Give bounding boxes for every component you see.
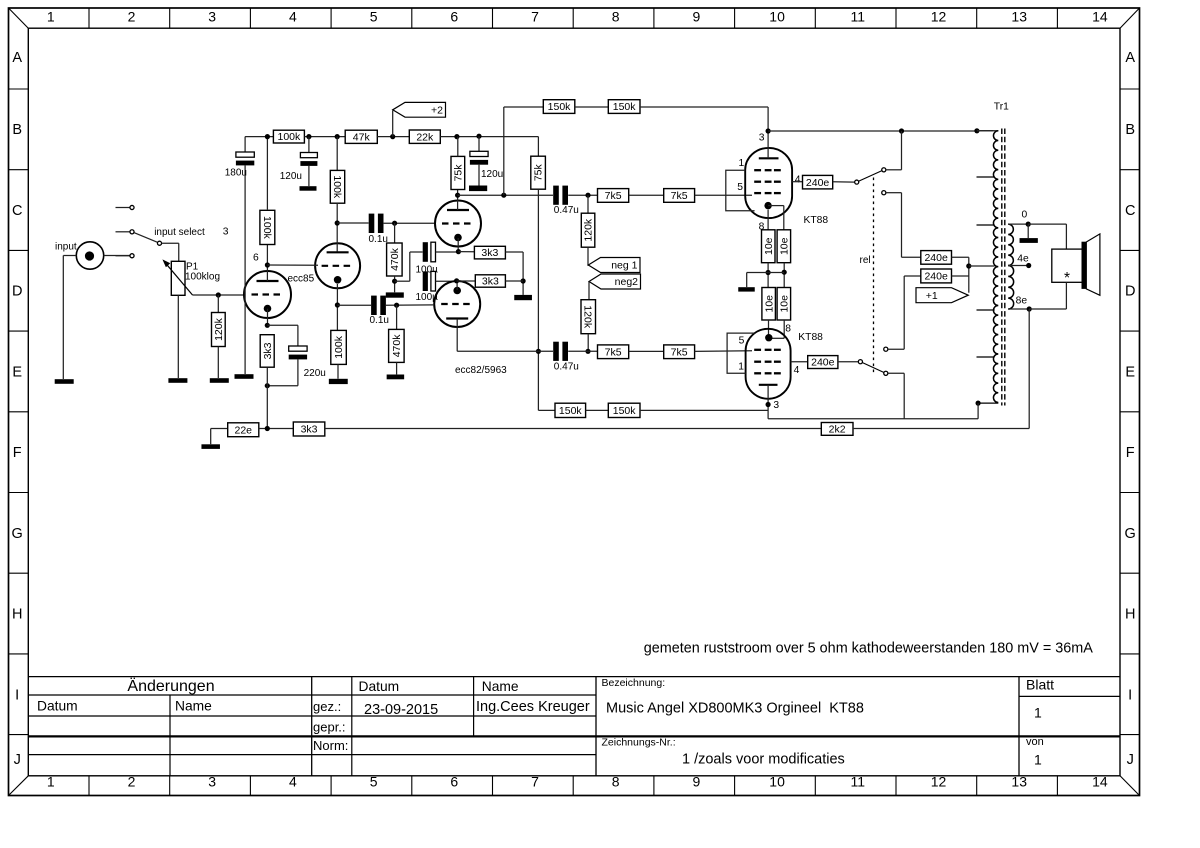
svg-text:1: 1 — [47, 773, 55, 789]
svg-text:5: 5 — [370, 773, 378, 789]
svg-text:G: G — [12, 526, 23, 542]
svg-text:input select: input select — [154, 227, 205, 238]
svg-text:75k: 75k — [533, 163, 545, 181]
svg-text:23-09-2015: 23-09-2015 — [364, 702, 438, 718]
svg-text:4: 4 — [289, 773, 297, 789]
svg-text:3: 3 — [223, 227, 229, 238]
svg-text:240e: 240e — [811, 357, 835, 369]
svg-text:1: 1 — [1034, 705, 1042, 721]
svg-text:J: J — [1127, 752, 1134, 768]
svg-text:7k5: 7k5 — [671, 190, 688, 202]
svg-text:J: J — [14, 752, 21, 768]
svg-text:3k3: 3k3 — [481, 247, 498, 259]
svg-text:150k: 150k — [548, 101, 572, 113]
svg-text:7: 7 — [531, 773, 539, 789]
svg-text:8: 8 — [785, 324, 791, 335]
svg-text:10: 10 — [769, 773, 785, 789]
svg-text:5: 5 — [370, 8, 378, 24]
svg-text:gez.:: gez.: — [313, 699, 341, 714]
svg-text:B: B — [12, 122, 22, 138]
svg-text:8: 8 — [612, 773, 620, 789]
svg-text:7k5: 7k5 — [605, 346, 622, 358]
svg-text:I: I — [15, 687, 19, 703]
svg-text:E: E — [12, 365, 22, 381]
svg-text:Änderungen: Änderungen — [127, 677, 214, 695]
svg-text:0: 0 — [1022, 210, 1028, 221]
svg-text:rel: rel — [860, 255, 871, 266]
svg-text:2k2: 2k2 — [829, 424, 846, 436]
svg-text:KT88: KT88 — [798, 332, 823, 343]
svg-text:0.47u: 0.47u — [554, 205, 579, 216]
svg-text:7k5: 7k5 — [671, 346, 688, 358]
svg-text:8: 8 — [612, 8, 620, 24]
svg-text:4: 4 — [289, 8, 297, 24]
svg-text:input: input — [55, 242, 77, 253]
svg-text:150k: 150k — [613, 405, 637, 417]
svg-text:9: 9 — [693, 8, 701, 24]
svg-text:100k: 100k — [333, 335, 345, 359]
svg-text:240e: 240e — [924, 271, 948, 283]
svg-text:11: 11 — [851, 773, 866, 789]
svg-text:12: 12 — [931, 773, 947, 789]
svg-text:120k: 120k — [583, 218, 595, 242]
svg-text:G: G — [1125, 526, 1136, 542]
svg-text:100k: 100k — [278, 131, 302, 143]
svg-text:neg2: neg2 — [615, 276, 639, 288]
svg-text:180u: 180u — [225, 168, 247, 179]
svg-text:120k: 120k — [213, 317, 225, 341]
svg-text:Name: Name — [482, 679, 519, 694]
svg-text:4e: 4e — [1017, 253, 1029, 264]
svg-text:A: A — [12, 50, 22, 66]
svg-text:14: 14 — [1092, 773, 1108, 789]
svg-text:10e: 10e — [778, 295, 790, 313]
svg-text:10e: 10e — [778, 237, 790, 255]
svg-text:Blatt: Blatt — [1026, 677, 1054, 693]
svg-text:1: 1 — [47, 8, 55, 24]
svg-text:13: 13 — [1011, 8, 1027, 24]
svg-text:H: H — [12, 607, 22, 623]
svg-text:Ing.Cees Kreuger: Ing.Cees Kreuger — [476, 699, 590, 715]
svg-text:0.47u: 0.47u — [554, 361, 579, 372]
svg-text:22e: 22e — [234, 424, 252, 436]
svg-text:+2: +2 — [431, 104, 443, 116]
svg-text:H: H — [1125, 607, 1135, 623]
svg-text:100klog: 100klog — [185, 272, 220, 283]
svg-text:gepr.:: gepr.: — [313, 720, 346, 735]
svg-text:9: 9 — [693, 773, 701, 789]
svg-text:D: D — [12, 284, 22, 300]
svg-text:KT88: KT88 — [804, 215, 829, 226]
svg-text:5: 5 — [737, 182, 743, 193]
svg-text:6: 6 — [450, 773, 458, 789]
svg-text:F: F — [1126, 445, 1135, 461]
svg-text:150k: 150k — [559, 405, 583, 417]
svg-text:3k3: 3k3 — [262, 342, 274, 359]
svg-text:3: 3 — [208, 773, 216, 789]
svg-text:1: 1 — [1034, 752, 1042, 768]
svg-text:8e: 8e — [1016, 296, 1028, 307]
svg-text:1: 1 — [738, 361, 744, 372]
svg-text:7k5: 7k5 — [605, 190, 622, 202]
svg-text:I: I — [1128, 687, 1132, 703]
svg-text:C: C — [12, 203, 22, 219]
svg-text:10e: 10e — [763, 237, 775, 255]
svg-text:240e: 240e — [924, 252, 948, 264]
svg-text:neg 1: neg 1 — [611, 260, 637, 272]
svg-text:120u: 120u — [280, 171, 302, 182]
svg-text:Norm:: Norm: — [313, 738, 348, 753]
svg-text:11: 11 — [851, 8, 866, 24]
svg-text:E: E — [1125, 365, 1135, 381]
svg-text:240e: 240e — [806, 177, 830, 189]
svg-text:3: 3 — [773, 400, 779, 411]
svg-text:14: 14 — [1092, 8, 1108, 24]
svg-text:B: B — [1125, 122, 1135, 138]
svg-text:4: 4 — [794, 365, 800, 376]
svg-text:120u: 120u — [481, 169, 503, 180]
svg-text:470k: 470k — [389, 247, 401, 271]
svg-text:120k: 120k — [582, 305, 594, 329]
svg-text:Name: Name — [175, 698, 212, 713]
svg-text:von: von — [1026, 736, 1044, 748]
svg-text:12: 12 — [931, 8, 947, 24]
svg-text:A: A — [1125, 50, 1135, 66]
svg-text:gemeten ruststroom over 5 ohm: gemeten ruststroom over 5 ohm kathodewee… — [644, 641, 1094, 657]
svg-text:0.1u: 0.1u — [370, 315, 389, 326]
svg-text:3k3: 3k3 — [301, 424, 318, 436]
svg-text:Datum: Datum — [359, 679, 400, 694]
svg-text:ecc85: ecc85 — [288, 273, 315, 284]
svg-text:+1: +1 — [926, 290, 938, 302]
svg-text:1 /zoals voor modificaties: 1 /zoals voor modificaties — [682, 752, 845, 768]
svg-text:3k3: 3k3 — [482, 276, 499, 288]
svg-text:47k: 47k — [353, 131, 371, 143]
svg-text:3: 3 — [208, 8, 216, 24]
svg-text:0.1u: 0.1u — [369, 234, 388, 245]
svg-text:Music Angel XD800MK3 Orgineel: Music Angel XD800MK3 Orgineel KT88 — [606, 701, 864, 717]
svg-text:6: 6 — [450, 8, 458, 24]
svg-text:1: 1 — [739, 158, 745, 169]
svg-text:C: C — [1125, 203, 1135, 219]
svg-text:5: 5 — [739, 335, 745, 346]
svg-text:10e: 10e — [763, 295, 775, 313]
svg-text:470k: 470k — [391, 334, 403, 358]
svg-text:ecc82/5963: ecc82/5963 — [455, 365, 507, 376]
svg-text:2: 2 — [128, 773, 136, 789]
svg-text:2: 2 — [128, 8, 136, 24]
svg-text:Datum: Datum — [37, 698, 78, 713]
svg-text:22k: 22k — [416, 131, 434, 143]
svg-text:Bezeichnung:: Bezeichnung: — [602, 677, 666, 689]
svg-text:10: 10 — [769, 8, 785, 24]
svg-text:6: 6 — [253, 253, 259, 264]
svg-text:150k: 150k — [613, 101, 637, 113]
svg-text:F: F — [13, 445, 22, 461]
svg-text:Tr1: Tr1 — [994, 102, 1009, 113]
svg-text:3: 3 — [759, 133, 765, 144]
svg-text:75k: 75k — [452, 164, 464, 182]
svg-text:100k: 100k — [331, 175, 343, 199]
svg-text:7: 7 — [531, 8, 539, 24]
svg-text:220u: 220u — [304, 368, 326, 379]
svg-text:4: 4 — [795, 175, 801, 186]
svg-text:100k: 100k — [261, 216, 273, 240]
svg-text:Zeichnungs-Nr.:: Zeichnungs-Nr.: — [602, 737, 676, 749]
svg-text:D: D — [1125, 284, 1135, 300]
